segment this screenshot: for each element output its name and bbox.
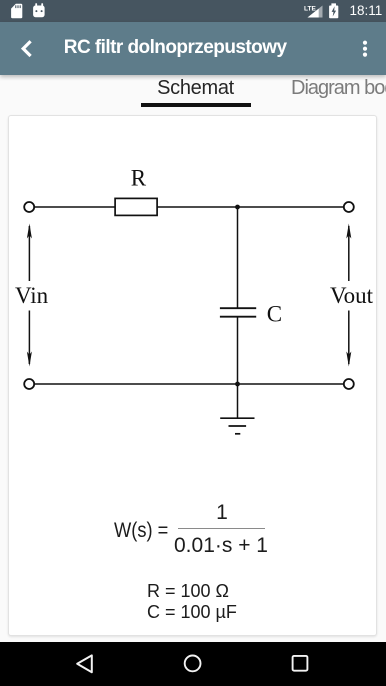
- status bar: [0, 0, 386, 22]
- Vout arrow upper shaft: [348, 226, 350, 281]
- battery icon: [329, 3, 338, 18]
- app bar title: [64, 37, 344, 61]
- wire top-left segment: [35, 206, 115, 208]
- nav bar: [0, 642, 386, 686]
- ground stem: [237, 384, 239, 418]
- wire bottom: [35, 383, 343, 385]
- value C: [147, 602, 237, 623]
- ground bar 2: [229, 425, 247, 427]
- value R: [147, 581, 229, 602]
- overflow menu dots: [358, 38, 374, 60]
- terminal top-left: [24, 202, 34, 212]
- svg-text:Vin: Vin: [15, 283, 49, 308]
- junction dot top: [235, 205, 240, 210]
- Vout arrowhead down: [346, 352, 351, 367]
- Vin arrowhead down: [27, 352, 32, 367]
- nav home circle: [185, 656, 201, 672]
- sd card icon: [11, 4, 22, 19]
- terminal top-right: [344, 202, 354, 212]
- ground bar 1: [220, 417, 254, 419]
- app bar: [0, 22, 386, 75]
- tab: Schemat: [140, 77, 251, 100]
- formula W(s): [114, 519, 168, 543]
- svg-text:C: C: [267, 302, 282, 327]
- junction dot bottom: [235, 382, 240, 387]
- svg-text:R: R: [131, 166, 147, 191]
- nav recents square: [293, 656, 308, 671]
- status bar icons: [0, 0, 386, 22]
- nav back triangle: [77, 655, 92, 672]
- tab: Diagram bo...: [291, 77, 386, 100]
- wire top-right segment: [157, 206, 343, 208]
- capacitor C bottom plate: [220, 316, 256, 318]
- resistor R body: [115, 198, 157, 215]
- Vin arrowhead up: [27, 224, 32, 239]
- capacitor C top plate: [220, 307, 256, 309]
- android head icon: [33, 3, 45, 17]
- Vin arrow upper shaft: [28, 226, 30, 281]
- wire capacitor top: [237, 207, 239, 308]
- Vout arrowhead up: [346, 224, 351, 239]
- Vin arrow lower shaft: [28, 311, 30, 365]
- ground bar 3: [235, 433, 240, 435]
- signal triangle: [308, 6, 323, 18]
- tab indicator: [141, 103, 251, 107]
- svg-text:Vout: Vout: [330, 283, 374, 308]
- card: [8, 115, 377, 636]
- back chevron: [18, 38, 34, 59]
- Vout arrow lower shaft: [348, 311, 350, 365]
- wire capacitor bottom: [237, 318, 239, 385]
- terminal bottom-left: [24, 379, 34, 389]
- terminal bottom-right: [344, 379, 354, 389]
